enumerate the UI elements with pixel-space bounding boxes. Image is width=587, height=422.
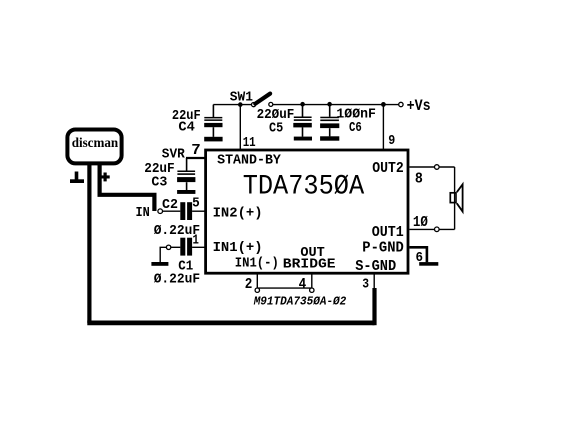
svg-text:OUT2: OUT2: [372, 161, 404, 177]
svg-text:STAND-BY: STAND-BY: [217, 153, 281, 169]
svg-text:IN2(+): IN2(+): [213, 206, 263, 222]
svg-text:8: 8: [415, 171, 423, 188]
svg-text:1: 1: [193, 233, 199, 249]
svg-text:11: 11: [243, 135, 256, 151]
svg-text:5: 5: [192, 196, 200, 212]
svg-text:+Vs: +Vs: [407, 97, 431, 115]
svg-text:S-GND: S-GND: [355, 259, 396, 275]
svg-text:SVR: SVR: [162, 147, 186, 162]
svg-text:BRIDGE: BRIDGE: [283, 257, 336, 273]
svg-text:C3: C3: [151, 175, 167, 191]
svg-text:Ø.22uF: Ø.22uF: [154, 272, 200, 288]
svg-text:4: 4: [299, 276, 307, 293]
svg-text:IN: IN: [136, 205, 150, 221]
svg-text:SW1: SW1: [230, 89, 253, 105]
svg-text:TDA735ØA: TDA735ØA: [243, 171, 365, 202]
svg-text:P-GND: P-GND: [362, 241, 404, 257]
svg-text:1Ø: 1Ø: [413, 214, 428, 231]
svg-text:M91TDA735ØA-Ø2: M91TDA735ØA-Ø2: [253, 296, 347, 309]
svg-text:C6: C6: [349, 120, 362, 136]
svg-text:IN1(+): IN1(+): [213, 240, 263, 256]
svg-text:C2: C2: [162, 197, 178, 213]
svg-text:6: 6: [416, 250, 424, 266]
svg-text:7: 7: [191, 142, 201, 159]
svg-text:2: 2: [245, 276, 253, 293]
svg-text:discman: discman: [72, 135, 119, 150]
svg-text:OUT1: OUT1: [372, 225, 404, 241]
svg-text:C5: C5: [269, 120, 283, 136]
svg-text:IN1(-): IN1(-): [235, 256, 279, 272]
svg-text:9: 9: [388, 133, 395, 149]
svg-text:C4: C4: [178, 119, 195, 135]
svg-text:3: 3: [362, 276, 369, 292]
